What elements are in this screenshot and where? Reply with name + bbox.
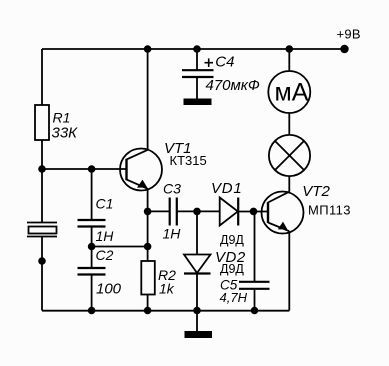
svg-text:470мкФ: 470мкФ [206,77,260,94]
svg-text:С1: С1 [96,196,114,212]
svg-text:100: 100 [96,281,122,298]
svg-text:VT2: VT2 [302,183,330,200]
svg-text:1Н: 1Н [96,228,115,244]
svg-text:МП113: МП113 [308,203,351,218]
svg-text:1Н: 1Н [163,226,182,242]
svg-text:R1: R1 [53,110,71,126]
svg-text:С4: С4 [215,54,234,71]
svg-text:VD1: VD1 [211,180,243,197]
svg-text:Д9Д: Д9Д [220,233,244,247]
svg-text:+9В: +9В [337,27,361,42]
svg-text:1k: 1k [159,281,175,297]
svg-text:С3: С3 [163,181,181,197]
svg-text:С2: С2 [96,247,114,263]
svg-text:4,7Н: 4,7Н [220,290,248,305]
svg-text:Д9Д: Д9Д [220,262,244,276]
svg-text:мА: мА [275,79,309,107]
svg-text:КТ315: КТ315 [170,153,207,168]
svg-text:33К: 33К [52,125,79,142]
